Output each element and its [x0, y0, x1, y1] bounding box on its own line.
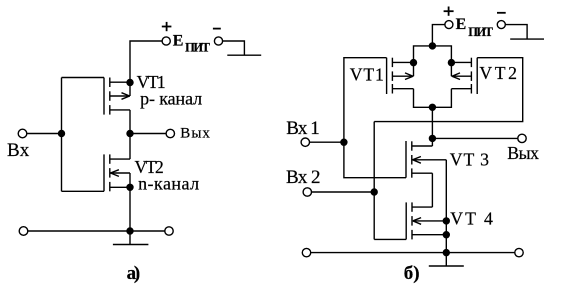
wire output (a) [130, 133, 166, 135]
svg-text:n-канал: n-канал [138, 174, 199, 194]
node VT2 source junction (a) [127, 184, 133, 190]
terminal - of Epit (b) [497, 21, 505, 29]
node ground junction (b) [443, 250, 449, 256]
svg-text:VT 4: VT 4 [450, 209, 493, 229]
plus sign (a) [162, 22, 172, 31]
svg-text:Е: Е [173, 32, 184, 49]
terminal Vx1 (b) [301, 138, 309, 146]
wire VT1 source down to output (a) [129, 110, 131, 134]
terminal + of Epit (b) [445, 21, 453, 29]
wire VT1 substrate tie (b) [413, 63, 415, 77]
transistor VT1 p-channel (b) [387, 58, 414, 94]
terminal ground left (a) [19, 227, 28, 236]
wire VT2 gate loop to input2 (b) [374, 58, 523, 122]
svg-text:VT 3: VT 3 [450, 150, 489, 170]
wire from minus terminal to chassis (b) [505, 25, 527, 39]
terminal Vyx (b) [518, 134, 526, 142]
wire center column to output node (b) [431, 107, 433, 138]
terminal ground right (b) [515, 248, 523, 256]
minus sign (b) [497, 12, 506, 14]
node input1 junction (b) [341, 139, 347, 145]
wire supply rail to substrate (a) [129, 83, 131, 97]
svg-text:Вх 1: Вх 1 [286, 118, 320, 139]
svg-text:VT2: VT2 [479, 63, 517, 83]
wire ground rail (b) [311, 252, 515, 254]
wire gate lead VT2 (a) [62, 190, 105, 192]
svg-text:ПИТ: ПИТ [468, 25, 493, 39]
svg-text:Вых: Вых [507, 143, 539, 163]
wire VT3 source to VT4 drain (b) [431, 173, 433, 207]
wire supply left (a) [130, 41, 162, 83]
svg-text:Вых: Вых [180, 126, 210, 142]
wire VT2 substrate to source (a) [129, 173, 131, 187]
wire output (b) [432, 137, 518, 139]
plus sign (b) [444, 7, 454, 16]
wire VT2 drain down (b) [432, 89, 451, 108]
wire VT4 gate lead (b) [374, 238, 406, 240]
minus sign (a) [213, 28, 221, 30]
node PMOS drain junction (b) [429, 104, 435, 110]
wire VT2 source to ground rail (a) [129, 187, 131, 231]
wire VT3 substrate rail down (b) [445, 160, 447, 253]
wire VT2 drain up to output (a) [129, 134, 131, 160]
svg-text:б): б) [404, 263, 420, 284]
terminal Vx2 (b) [303, 188, 311, 196]
wire input rail (a) [61, 78, 63, 192]
wire input 2 (b) [312, 191, 375, 193]
transistor VT2 p-channel (b) [451, 58, 477, 94]
terminal Vx (a) [18, 129, 27, 138]
svg-text:Е: Е [456, 16, 467, 33]
node supply split junction (b) [429, 43, 435, 49]
node VT1 source junction (b) [411, 60, 417, 66]
wire gate lead VT1 (a) [62, 77, 105, 79]
wire input1 rail to VT3 gate (b) [344, 142, 406, 178]
node output junction (a) [127, 131, 133, 137]
wire supply left (b) [432, 25, 445, 46]
terminal + of Epit (a) [162, 37, 170, 45]
wire supply T split (b) [414, 46, 452, 63]
node VT4 source junction (b) [443, 232, 449, 238]
transistor VT4 n-channel (b) [406, 202, 446, 239]
wire VT1 drain down (b) [414, 89, 433, 108]
terminal ground right (a) [165, 227, 173, 235]
wire input (a) [27, 133, 62, 135]
transistor VT2 n-channel [104, 154, 130, 191]
wire input2 rail (b) [373, 122, 375, 240]
node VT2 source junction (b) [448, 60, 454, 66]
svg-text:а): а) [127, 263, 141, 284]
node output junction (b) [429, 135, 435, 141]
wire input 1 (b) [309, 141, 344, 143]
node VT4 substrate junction (b) [443, 218, 449, 224]
node input2 junction (b) [371, 189, 377, 195]
wire ground rail (a) [28, 230, 165, 232]
terminal ground left (b) [302, 248, 310, 256]
svg-text:p- канал: p- канал [140, 88, 202, 108]
node ground junction (a) [127, 228, 133, 234]
terminal - of Epit (a) [214, 37, 222, 45]
node input junction (a) [59, 131, 65, 137]
transistor VT1 p-channel [104, 78, 130, 115]
node VT1 drain junction (a) [127, 80, 133, 86]
chassis bar top right (a) [227, 54, 261, 56]
transistor VT3 n-channel (b) [406, 141, 446, 178]
chassis bar top right (b) [510, 38, 544, 40]
ground symbol (a) [113, 231, 148, 245]
wire output node to VT3 drain (b) [431, 138, 433, 146]
svg-text:Вх 2: Вх 2 [286, 167, 321, 188]
wire VT1 gate loop to input1 (b) [344, 58, 387, 143]
svg-text:ПИТ: ПИТ [185, 40, 211, 54]
ground symbol (b) [429, 253, 464, 266]
svg-text:Вх: Вх [7, 140, 30, 161]
terminal Vyx (a) [166, 129, 174, 137]
wire VT2 substrate tie (b) [450, 63, 452, 77]
svg-text:VT1: VT1 [350, 65, 384, 85]
wire from minus terminal to chassis (a) [223, 41, 245, 55]
